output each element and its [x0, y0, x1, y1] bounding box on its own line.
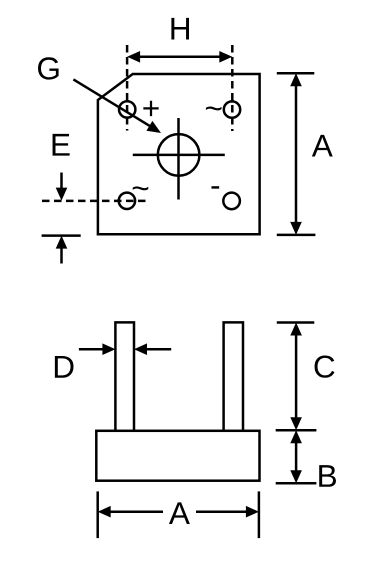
B bottom tick — [276, 482, 317, 485]
label ~ (top-right AC terminal) — [206, 106, 222, 110]
D arrowhead right (points left) — [134, 343, 147, 355]
H dimension line — [139, 56, 220, 59]
left pin — [115, 322, 134, 431]
terminal hole - (bottom-right) — [223, 193, 240, 210]
label + (plus terminal) — [143, 101, 158, 116]
A dimension right: bottom tick — [277, 234, 316, 237]
A bottom: dimension line right segment — [196, 510, 247, 513]
terminal hole ~ (top-right) — [224, 101, 240, 117]
A bottom: left extension line — [96, 491, 99, 538]
label D — [55, 356, 74, 378]
label C — [315, 356, 335, 378]
mounting hole (center circle) — [158, 134, 200, 176]
E up arrowhead — [56, 236, 68, 249]
H extension line left (dashed) — [126, 45, 129, 131]
C top tick — [277, 321, 315, 324]
H dim arrowhead right — [219, 51, 232, 63]
A dimension right: top tick — [277, 72, 315, 75]
label A (top view) — [312, 135, 333, 157]
B arrow line — [295, 442, 298, 472]
centerline vertical — [177, 118, 180, 200]
label - (minus terminal) — [211, 186, 219, 188]
A right arrowhead bottom — [290, 222, 302, 235]
H extension line right (dashed) — [231, 45, 234, 131]
C arrow line — [295, 335, 298, 419]
H dim arrowhead left — [127, 51, 140, 63]
A bottom: dimension line left segment — [110, 510, 163, 513]
D left arrow line — [79, 348, 104, 351]
B arrowhead top — [290, 430, 302, 443]
D right arrow line — [146, 348, 171, 351]
C arrowhead top — [290, 323, 302, 336]
C arrowhead bottom — [290, 417, 302, 430]
terminal hole + (top-left) — [119, 101, 135, 117]
E bottom tick — [42, 234, 81, 237]
body outline (top view, chamfered square) — [98, 74, 260, 234]
label ~ (bottom-left AC terminal) — [133, 186, 149, 190]
E dashed centerline — [42, 200, 147, 203]
terminal hole ~ (bottom-left) — [119, 193, 135, 209]
A bottom arrowhead right — [246, 506, 259, 518]
label E — [53, 134, 70, 156]
D arrowhead left (points right) — [102, 343, 115, 355]
E down arrowhead — [56, 188, 68, 201]
A bottom arrowhead left — [98, 506, 111, 518]
label G — [38, 57, 59, 79]
G leader line — [73, 79, 150, 126]
E down arrow line — [60, 173, 63, 189]
G leader arrowhead — [146, 121, 161, 133]
A bottom: right extension line — [258, 491, 261, 538]
label A (bottom view) — [169, 502, 190, 524]
C/B middle tick — [276, 429, 317, 432]
right pin — [224, 322, 243, 431]
A right arrowhead top — [290, 73, 302, 86]
label H — [171, 18, 189, 40]
centerline horizontal — [133, 154, 225, 157]
base rectangle (side view) — [96, 431, 259, 481]
B arrowhead bottom — [290, 470, 302, 483]
E up arrow line — [60, 248, 63, 264]
A dimension right: arrow line — [295, 86, 298, 223]
label B — [319, 465, 336, 487]
